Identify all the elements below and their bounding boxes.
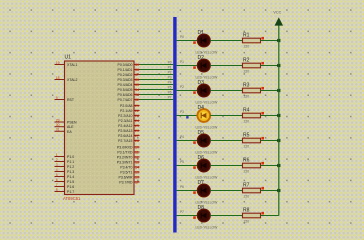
pin-state marker at D1 anode: [193, 41, 196, 44]
svg-text:PSEN: PSEN: [67, 121, 77, 125]
U1 pin P0.5/AD5 (34): [118, 88, 140, 92]
svg-text:R4: R4: [243, 107, 250, 113]
svg-text:220: 220: [244, 220, 250, 224]
U1 pin P0.6/AD6 (33): [118, 93, 140, 97]
svg-text:P0.7/AD7: P0.7/AD7: [118, 98, 133, 102]
junction on VCC rail row 3: [277, 89, 280, 92]
svg-text:D3: D3: [198, 80, 205, 86]
svg-text:220: 220: [244, 120, 250, 124]
svg-text:P1.5: P1.5: [67, 180, 74, 184]
svg-text:23: 23: [135, 114, 139, 118]
svg-text:P1.3: P1.3: [67, 170, 74, 174]
svg-text:18: 18: [56, 76, 60, 80]
LED D7: [197, 184, 210, 197]
svg-text:R3: R3: [243, 82, 250, 88]
U1 pin P2.1/A9 (22): [120, 109, 139, 113]
value label LED-YELLOW: [196, 51, 219, 55]
svg-text:XTAL2: XTAL2: [67, 78, 77, 82]
pin-state marker at D4 anode: [186, 116, 188, 118]
value label AT89C51: [63, 196, 81, 201]
LED D6: [197, 159, 210, 172]
svg-text:9: 9: [56, 96, 58, 100]
reference label U1: [65, 55, 72, 61]
svg-text:220: 220: [244, 145, 250, 149]
U1 pin P0.3/AD3 (36): [118, 78, 140, 82]
wire bus to D5: [177, 140, 198, 142]
U1 pin RST (9): [55, 96, 75, 102]
wire bus to D7: [177, 190, 198, 192]
svg-text:LED-YELLOW: LED-YELLOW: [196, 201, 219, 205]
svg-text:LED-YELLOW: LED-YELLOW: [196, 126, 219, 130]
pin-state marker at R3: [261, 87, 264, 90]
svg-text:EA: EA: [67, 130, 72, 134]
svg-text:P2.5/A13: P2.5/A13: [118, 129, 132, 133]
wire D3 to R3: [210, 90, 242, 92]
svg-text:AT89C51: AT89C51: [63, 196, 81, 201]
U1 pin P2.6/A14 (27): [118, 134, 139, 138]
U1 pin P0.4/AD4 (35): [118, 83, 140, 87]
wire D8 to R8: [210, 215, 242, 217]
svg-text:17: 17: [135, 180, 139, 184]
pin-state marker at D5 anode: [193, 141, 196, 144]
svg-text:24: 24: [135, 119, 139, 123]
wire P0.6 to bus: [140, 94, 174, 96]
U1 pin P1.4 (5): [55, 173, 75, 179]
svg-text:29: 29: [56, 118, 60, 122]
reference label R8: [243, 207, 250, 213]
svg-text:15: 15: [135, 170, 139, 174]
wire D5 to R5: [210, 140, 242, 142]
svg-text:P2.2/A10: P2.2/A10: [118, 114, 132, 118]
value label LED-YELLOW: [196, 176, 219, 180]
svg-text:220: 220: [244, 170, 250, 174]
resistor R4: [243, 113, 261, 118]
LED D8: [197, 209, 210, 222]
svg-text:P3.3/INT1: P3.3/INT1: [117, 161, 133, 165]
svg-text:P3.7/RD: P3.7/RD: [119, 181, 133, 185]
net label P5 (left of bus): [168, 86, 172, 90]
wire D6 to R6: [210, 165, 242, 167]
wire bus to D8: [177, 215, 198, 217]
svg-text:P0.4/AD4: P0.4/AD4: [118, 83, 133, 87]
svg-text:XTAL1: XTAL1: [67, 63, 77, 67]
value label LED-YELLOW: [196, 201, 219, 205]
svg-text:31: 31: [56, 128, 60, 132]
U1 pin XTAL2 (18): [55, 76, 78, 82]
reference label R7: [243, 182, 250, 188]
U1 pin ALE (30): [55, 123, 75, 129]
svg-text:220: 220: [244, 95, 250, 99]
value label LED-YELLOW: [196, 151, 219, 155]
svg-text:ALE: ALE: [67, 125, 74, 129]
svg-text:P4: P4: [168, 81, 172, 85]
wire P0.1 to bus: [140, 69, 174, 71]
resistor R2: [243, 63, 261, 68]
net label P0 (left of bus): [168, 61, 172, 65]
LED D1: [197, 34, 210, 47]
wire D7 to R7: [210, 190, 242, 192]
svg-text:P1: P1: [180, 60, 184, 64]
U1 pin P0.0/AD0 (39): [118, 63, 140, 67]
value label 220: [244, 220, 250, 224]
svg-text:P3.5/T1: P3.5/T1: [120, 171, 132, 175]
wire D2 to R2: [210, 65, 242, 67]
net label P1 (left of bus): [168, 66, 172, 70]
reference label D1: [198, 30, 205, 36]
svg-text:P1.7: P1.7: [67, 190, 74, 194]
svg-text:3: 3: [56, 163, 58, 167]
wire bus to D1: [177, 40, 198, 42]
pin-state marker at D2 anode: [193, 66, 196, 69]
svg-text:26: 26: [135, 129, 139, 133]
svg-text:P6: P6: [168, 91, 172, 95]
net label P6 (left of bus): [168, 91, 172, 95]
svg-text:VCC: VCC: [273, 11, 281, 15]
value label LED-YELLOW: [196, 76, 219, 80]
wire R5 to VCC rail: [261, 140, 279, 142]
U1 pin P2.5/A13 (26): [118, 129, 139, 133]
svg-text:P2.7/A15: P2.7/A15: [118, 139, 132, 143]
wire bus to D6: [177, 165, 198, 167]
value label LED-YELLOW: [196, 226, 219, 230]
U1 pin XTAL1 (19): [55, 61, 78, 67]
U1 pin P0.2/AD2 (37): [118, 73, 140, 77]
U1 pin P3.7/RD (17): [119, 180, 139, 184]
svg-text:1: 1: [56, 153, 58, 157]
pin-state marker at R2: [261, 62, 264, 65]
svg-text:U1: U1: [65, 55, 72, 61]
svg-text:22: 22: [135, 109, 139, 113]
reference label D6: [198, 155, 205, 161]
svg-text:P3.2/INT0: P3.2/INT0: [117, 156, 133, 160]
reference label D3: [198, 80, 205, 86]
junction on VCC rail row 7: [277, 189, 280, 192]
svg-text:P1.6: P1.6: [67, 185, 74, 189]
reference label D7: [198, 180, 205, 186]
svg-text:D4: D4: [198, 105, 205, 111]
svg-text:P0.5/AD5: P0.5/AD5: [118, 88, 133, 92]
LED D4: [197, 109, 210, 122]
U1 pin P1.7 (8): [55, 188, 75, 194]
svg-text:D2: D2: [198, 55, 205, 61]
svg-text:P1.2: P1.2: [67, 165, 74, 169]
value label 220: [244, 145, 250, 149]
wire R1 to VCC rail: [261, 40, 279, 42]
svg-text:2: 2: [56, 158, 58, 162]
U1 pin P2.2/A10 (23): [118, 114, 139, 118]
junction on VCC rail row 5: [277, 139, 280, 142]
svg-text:220: 220: [244, 70, 250, 74]
svg-text:D1: D1: [198, 30, 205, 36]
pin-state marker at R5: [261, 137, 264, 140]
pin-state marker at R8: [261, 212, 264, 215]
junction on VCC rail row 2: [277, 64, 280, 67]
net label P7 (right of bus): [180, 210, 184, 214]
wire R8 to VCC rail: [261, 215, 279, 217]
wire bus to D4: [177, 115, 198, 117]
resistor R8: [243, 213, 261, 218]
svg-text:220: 220: [244, 45, 250, 49]
U1 pin P1.3 (4): [55, 168, 75, 174]
svg-text:D7: D7: [198, 180, 205, 186]
U1 pin EA (31): [55, 128, 73, 134]
svg-text:P3: P3: [168, 76, 172, 80]
value label 220: [244, 45, 250, 49]
U1 pin P0.7/AD7 (32): [118, 98, 140, 102]
value label 220: [244, 170, 250, 174]
reference label R3: [243, 82, 250, 88]
pin-state marker at R4: [261, 112, 264, 115]
svg-text:P7: P7: [168, 96, 172, 100]
svg-text:P0.3/AD3: P0.3/AD3: [118, 78, 133, 82]
svg-text:P0.0/AD0: P0.0/AD0: [118, 63, 133, 67]
svg-text:D6: D6: [198, 155, 205, 161]
svg-text:RST: RST: [67, 98, 75, 102]
svg-text:38: 38: [135, 68, 139, 72]
svg-text:R6: R6: [243, 157, 250, 163]
reference label R6: [243, 157, 250, 163]
svg-text:P2.1/A9: P2.1/A9: [120, 109, 133, 113]
net label P3 (right of bus): [180, 110, 184, 114]
U1 pin P3.6/WR (16): [118, 175, 139, 179]
svg-text:6: 6: [56, 178, 58, 182]
svg-text:P2: P2: [180, 85, 184, 89]
value label 220: [244, 95, 250, 99]
svg-text:10: 10: [135, 145, 139, 149]
value label 220: [244, 120, 250, 124]
value label 220: [244, 70, 250, 74]
resistor R6: [243, 163, 261, 168]
wire D4 to R4: [210, 115, 242, 117]
net label P4 (left of bus): [168, 81, 172, 85]
svg-text:P1.0: P1.0: [67, 155, 74, 159]
svg-text:R5: R5: [243, 132, 250, 138]
svg-text:R1: R1: [243, 32, 250, 38]
reference label D8: [198, 205, 205, 211]
net label P7 (left of bus): [168, 96, 172, 100]
microcontroller U1 body: [65, 61, 135, 195]
U1 pin P2.4/A12 (25): [118, 124, 139, 128]
svg-text:35: 35: [135, 83, 139, 87]
junction on VCC rail row 4: [277, 114, 280, 117]
svg-text:30: 30: [56, 123, 60, 127]
svg-text:P0.1/AD1: P0.1/AD1: [118, 68, 133, 72]
svg-text:P2.6/A14: P2.6/A14: [118, 134, 132, 138]
wire P0.0 to bus: [140, 64, 174, 66]
resistor R3: [243, 88, 261, 93]
wire P0.5 to bus: [140, 89, 174, 91]
svg-text:4: 4: [56, 168, 58, 172]
svg-text:P3.6/WR: P3.6/WR: [118, 176, 132, 180]
svg-text:P6: P6: [180, 185, 184, 189]
svg-text:D8: D8: [198, 205, 205, 211]
svg-text:P3.1/TXD: P3.1/TXD: [117, 151, 133, 155]
wire P0.3 to bus: [140, 79, 174, 81]
reference label R5: [243, 132, 250, 138]
svg-text:8: 8: [56, 188, 58, 192]
svg-text:39: 39: [135, 63, 139, 67]
svg-text:P0.2/AD2: P0.2/AD2: [118, 73, 133, 77]
svg-text:LED-YELLOW: LED-YELLOW: [196, 176, 219, 180]
svg-text:36: 36: [135, 78, 139, 82]
reference label R1: [243, 32, 250, 38]
svg-text:33: 33: [135, 93, 139, 97]
wire bus to D3: [177, 90, 198, 92]
svg-text:LED-YELLOW: LED-YELLOW: [196, 226, 219, 230]
svg-text:11: 11: [135, 150, 139, 154]
svg-text:34: 34: [135, 88, 139, 92]
svg-text:P0.6/AD6: P0.6/AD6: [118, 93, 133, 97]
svg-text:220: 220: [244, 195, 250, 199]
bus (vertical data bus): [173, 17, 176, 233]
svg-text:32: 32: [135, 98, 139, 102]
reference label D5: [198, 130, 205, 136]
U1 pin P2.7/A15 (28): [118, 139, 139, 143]
U1 pin P2.3/A11 (24): [118, 119, 139, 123]
svg-text:P3: P3: [180, 110, 184, 114]
wire P0.2 to bus: [140, 74, 174, 76]
wire R7 to VCC rail: [261, 190, 279, 192]
wire R4 to VCC rail: [261, 115, 279, 117]
pin-state marker at R1: [261, 37, 264, 40]
U1 pin PSEN (29): [55, 118, 78, 124]
pin-state marker at R7: [261, 187, 264, 190]
svg-text:16: 16: [135, 175, 139, 179]
resistor R1: [243, 38, 261, 43]
junction on VCC rail row 1: [277, 39, 280, 42]
svg-text:R7: R7: [243, 182, 250, 188]
resistor R7: [243, 188, 261, 193]
LED D5: [197, 134, 210, 147]
U1 pin P3.0/RXD (10): [117, 145, 140, 149]
svg-text:5: 5: [56, 173, 58, 177]
U1 pin P3.2/INT0 (12): [117, 155, 140, 159]
U1 pin P3.5/T1 (15): [120, 170, 139, 174]
pin-state marker at R6: [261, 162, 264, 165]
svg-text:P2.0/A8: P2.0/A8: [120, 104, 133, 108]
value label LED-YELLOW: [196, 101, 219, 105]
U1 pin P3.4/T0 (14): [120, 165, 139, 169]
value label 220: [244, 195, 250, 199]
value label LED-YELLOW: [196, 126, 219, 130]
svg-text:P4: P4: [180, 135, 184, 139]
svg-text:LED-YELLOW: LED-YELLOW: [196, 101, 219, 105]
pin-state marker at D3 anode: [193, 91, 196, 94]
reference label R2: [243, 57, 250, 63]
wire P0.7 to bus: [140, 99, 174, 101]
svg-text:P7: P7: [180, 210, 184, 214]
LED D3: [197, 84, 210, 97]
svg-text:P2: P2: [168, 71, 172, 75]
svg-text:D5: D5: [198, 130, 205, 136]
svg-text:37: 37: [135, 73, 139, 77]
U1 pin P1.2 (3): [55, 163, 75, 169]
wire bus to D2: [177, 65, 198, 67]
U1 pin P3.1/TXD (11): [117, 150, 139, 154]
svg-text:28: 28: [135, 139, 139, 143]
svg-text:LED-YELLOW: LED-YELLOW: [196, 51, 219, 55]
svg-text:P0: P0: [180, 35, 184, 39]
net label P6 (right of bus): [180, 185, 184, 189]
svg-text:P1: P1: [168, 66, 172, 70]
net label P4 (right of bus): [180, 135, 184, 139]
net label P1 (right of bus): [180, 60, 184, 64]
reference label R4: [243, 107, 250, 113]
svg-text:P1.1: P1.1: [67, 160, 74, 164]
svg-text:7: 7: [56, 183, 58, 187]
svg-text:P0: P0: [168, 61, 172, 65]
svg-text:P1.4: P1.4: [67, 175, 74, 179]
wire R3 to VCC rail: [261, 90, 279, 92]
net label P5 (right of bus): [180, 160, 184, 164]
reference label D4: [198, 105, 205, 111]
net label P0 (right of bus): [180, 35, 184, 39]
svg-text:27: 27: [135, 134, 139, 138]
wire P0.4 to bus: [140, 84, 174, 86]
VCC rail wire: [278, 25, 280, 216]
svg-text:LED-YELLOW: LED-YELLOW: [196, 76, 219, 80]
LED D2: [197, 59, 210, 72]
net label P3 (left of bus): [168, 76, 172, 80]
reference label D2: [198, 55, 205, 61]
net label P2 (right of bus): [180, 85, 184, 89]
svg-text:P2.3/A11: P2.3/A11: [118, 119, 132, 123]
svg-text:P5: P5: [180, 160, 184, 164]
pin-state marker at D7 anode: [193, 191, 196, 194]
svg-text:R8: R8: [243, 207, 250, 213]
svg-text:14: 14: [135, 165, 139, 169]
svg-text:13: 13: [135, 160, 139, 164]
U1 pin P1.1 (2): [55, 158, 75, 164]
svg-text:19: 19: [56, 61, 60, 65]
svg-text:P3.4/T0: P3.4/T0: [120, 166, 132, 170]
svg-text:P3.0/RXD: P3.0/RXD: [117, 146, 133, 150]
svg-text:P2.4/A12: P2.4/A12: [118, 124, 132, 128]
wire R2 to VCC rail: [261, 65, 279, 67]
svg-text:LED-YELLOW: LED-YELLOW: [196, 151, 219, 155]
U1 pin P0.1/AD1 (38): [118, 68, 140, 72]
U1 pin P2.0/A8 (21): [120, 104, 139, 108]
U1 pin P1.0 (1): [55, 153, 75, 159]
junction on VCC rail row 6: [277, 164, 280, 167]
U1 pin P1.6 (7): [55, 183, 75, 189]
U1 pin P3.3/INT1 (13): [117, 160, 140, 164]
resistor R5: [243, 138, 261, 143]
wire D1 to R1: [210, 40, 242, 42]
net label P2 (left of bus): [168, 71, 172, 75]
svg-text:R2: R2: [243, 57, 250, 63]
pin-state marker at D6 anode: [193, 166, 196, 169]
svg-text:25: 25: [135, 124, 139, 128]
svg-text:12: 12: [135, 155, 139, 159]
VCC power symbol: [273, 11, 282, 26]
svg-text:P5: P5: [168, 86, 172, 90]
wire R6 to VCC rail: [261, 165, 279, 167]
svg-text:21: 21: [135, 104, 139, 108]
U1 pin P1.5 (6): [55, 178, 75, 184]
pin-state marker at D8 anode: [193, 216, 196, 219]
